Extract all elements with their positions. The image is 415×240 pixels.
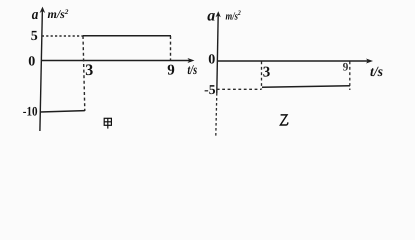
x-axis (right graph) — [217, 59, 373, 64]
svg-text:-5: -5 — [204, 82, 216, 97]
graph segment a=-10 from t=0 to t=3 — [40, 111, 85, 112]
svg-text:t/s: t/s — [370, 65, 384, 80]
svg-text:3: 3 — [85, 62, 93, 79]
dashed vertical at t=3 from a=5 down to a=-10 — [83, 36, 85, 111]
svg-text:5: 5 — [31, 29, 38, 44]
svg-text:-10: -10 — [23, 104, 38, 119]
svg-text:3: 3 — [263, 64, 271, 80]
dashed vertical at t=9 (right) — [349, 62, 351, 91]
caption yi (Chinese) drawn as path — [280, 115, 287, 125]
svg-text:a: a — [32, 7, 39, 23]
svg-text:9: 9 — [167, 63, 175, 79]
dashed helper a=-5 from axis to t=3 — [217, 88, 262, 90]
svg-text:0: 0 — [208, 52, 215, 67]
dotted helper line a=5 from axis to t=3 — [42, 35, 83, 37]
dashed vertical at t=3 (right) — [261, 62, 263, 90]
y-axis (right graph) dashed lower part — [216, 93, 217, 136]
x-axis (left graph) — [41, 58, 195, 63]
graph segment a=5 from t=3 to t=9 — [83, 35, 171, 37]
y-axis (left graph) — [40, 7, 46, 131]
dashed vertical at t=9 from a=5 to axis — [170, 36, 172, 60]
svg-text:t/s: t/s — [187, 62, 197, 77]
svg-text:9: 9 — [343, 62, 349, 74]
svg-text:0: 0 — [28, 55, 35, 70]
svg-text:a: a — [207, 8, 215, 25]
graph segment a=-5 from t=3 to t=9 — [262, 86, 350, 88]
y-axis (right graph) solid part — [216, 11, 221, 93]
caption jia (Chinese) drawn as path — [104, 118, 111, 128]
